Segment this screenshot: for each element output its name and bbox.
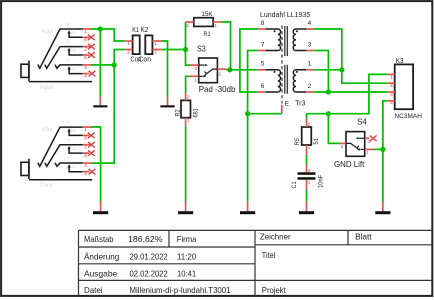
svg-text:1: 1 [308,145,311,150]
svg-text:2: 2 [127,49,130,54]
svg-text:15K: 15K [201,11,213,18]
node chassis junction [380,147,385,152]
svg-text:Lundahl LL1935: Lundahl LL1935 [260,12,310,19]
svg-text:1: 1 [366,150,369,155]
svg-text:R5: R5 [295,137,301,145]
svg-text:R: R [67,138,70,143]
svg-text:Titel: Titel [262,250,276,260]
wire Tr3.3 down to Tr3.2 net [314,51,328,93]
node secondary cold junction [326,89,331,94]
svg-text:2: 2 [154,49,157,54]
svg-text:T: T [67,156,70,161]
svg-text:Millenium-di-p-lundahl.T3001: Millenium-di-p-lundahl.T3001 [130,285,231,295]
svg-text:29.01.2022: 29.01.2022 [130,252,169,262]
svg-text:1: 1 [390,74,393,79]
svg-text:6: 6 [84,135,87,140]
ground (chassis) [375,202,390,215]
svg-text:3: 3 [390,92,393,97]
no-connect marks K5a pins 6,2,5,4 [88,133,96,175]
wire S3.1 to R2.2 [186,76,190,93]
svg-text:K2: K2 [141,27,149,34]
node secondary hot junction [339,67,344,72]
svg-text:4: 4 [390,101,393,106]
svg-text:T: T [67,58,70,63]
svg-text:SN: SN [70,30,76,35]
svg-text:K5a: K5a [42,128,53,134]
svg-text:S3: S3 [197,45,206,54]
svg-text:2: 2 [308,122,311,127]
wire R5.2 stub top [306,114,308,119]
svg-text:S4: S4 [357,118,367,127]
ground (thru sleeve) [93,202,108,215]
wire XLR-pin1 bus [307,74,388,113]
wire K5a.1 to ground [91,127,101,202]
svg-text:186,62%: 186,62% [128,234,163,244]
svg-text:4: 4 [84,172,87,177]
connector K1 [125,27,142,64]
node tip junction [112,62,117,67]
svg-text:E: E [285,101,290,108]
wire K1.2 to tip net [114,50,124,65]
svg-text:1: 1 [308,179,311,184]
svg-text:C1: C1 [292,181,298,189]
svg-text:Input: Input [40,85,54,91]
svg-text:Änderung: Änderung [84,252,120,262]
svg-text:1: 1 [154,41,157,46]
ground (C1) [299,202,314,215]
svg-text:2: 2 [84,47,87,52]
resistor R2 681 [175,93,199,126]
wire Tr3.4 to K3.2 [314,29,387,83]
svg-text:NC3MAH: NC3MAH [394,113,422,120]
svg-text:S: S [67,120,70,125]
ground (R2) [178,202,193,215]
svg-text:2: 2 [218,72,221,77]
wire Tr3.8 to Tr3.6 [240,29,258,92]
wire Tr3.1 joins [314,69,342,71]
svg-text:7: 7 [261,41,265,48]
ground (Tr3.7) [240,202,255,215]
transformer Tr3 Lundahl LL1935 [258,12,315,114]
wire S4.1 to chassis net [373,148,383,150]
svg-text:RN: RN [70,146,76,151]
wire shield branch to E pin [248,113,282,115]
wire R5.1 to C1.2 [306,155,308,165]
svg-text:Firma: Firma [177,234,197,244]
wire R1.2 / S3.3 vertical [186,22,191,65]
svg-text:6: 6 [84,37,87,42]
svg-text:K3: K3 [396,58,404,65]
node sleeve junction [98,26,103,31]
svg-text:S: S [67,22,70,27]
svg-text:Thru: Thru [40,183,52,189]
svg-text:3: 3 [84,65,87,70]
svg-text:RN: RN [70,48,76,53]
svg-text:3: 3 [84,163,87,168]
svg-text:TN: TN [70,66,76,71]
wire R1.1 down to pad output net [222,22,231,70]
svg-text:4: 4 [308,20,312,27]
no-connect marks K4a pins 6,2,5,4 [88,35,96,77]
wire K2.2 to pad input net [162,49,186,51]
svg-text:2: 2 [390,83,393,88]
wire Tr3.2 to K3.3 [314,91,387,93]
svg-text:1: 1 [84,29,87,34]
ground (input sleeve) [93,97,107,108]
svg-text:5: 5 [84,153,87,158]
svg-text:02.02.2022: 02.02.2022 [130,269,169,279]
node shield branch [245,111,250,116]
svg-text:K1: K1 [132,27,139,34]
svg-text:1: 1 [214,23,217,28]
capacitor C1 10nF [292,165,324,190]
wire tip net down to K5a.3 [91,65,114,163]
svg-text:1: 1 [308,61,312,68]
wire R2.1 to ground [185,126,187,202]
svg-text:10:41: 10:41 [177,269,197,279]
wire K4a.1 sleeve net to K1.1 [91,29,125,41]
title block table [79,230,433,296]
svg-text:2: 2 [308,168,311,173]
switch S3 Pad -30db [190,45,236,95]
switch S4 GND Lift [334,118,373,170]
svg-text:Blatt: Blatt [355,232,372,242]
svg-text:11:20: 11:20 [177,252,197,262]
wire chassis net K3.4 to ground [383,101,387,202]
wire K4a.3 tip net [91,64,114,66]
svg-text:1: 1 [194,77,197,82]
svg-text:2: 2 [308,83,312,90]
svg-text:5: 5 [84,55,87,60]
connector K5a (jack socket, Thru) [21,120,92,189]
svg-text:1: 1 [127,41,130,46]
svg-text:51: 51 [314,137,320,144]
svg-text:681: 681 [194,108,200,118]
svg-text:5: 5 [261,61,265,68]
svg-text:Maßstab: Maßstab [84,234,114,244]
svg-text:10nF: 10nF [318,174,324,187]
resistor R1 15K [186,11,222,38]
no-connect mark S4.3 [370,136,377,142]
svg-text:R1: R1 [204,31,211,38]
svg-text:2: 2 [341,144,344,149]
svg-text:Datei: Datei [84,285,103,295]
svg-text:Pad -30db: Pad -30db [199,85,236,94]
svg-text:Zeichner: Zeichner [260,232,291,242]
svg-text:1: 1 [187,117,190,122]
svg-text:R2: R2 [175,109,181,116]
svg-text:2: 2 [187,94,190,99]
svg-text:3: 3 [308,41,312,48]
svg-text:8: 8 [261,20,265,27]
wire Tr3.7 down [248,51,258,202]
ground (K2.1) [160,97,174,108]
svg-text:Projekt: Projekt [262,285,287,295]
svg-text:2: 2 [186,23,189,28]
node pad input junction [183,47,188,52]
wire S3.2 to Tr3.5 [227,69,258,71]
node bus to S4 branch [326,111,331,116]
svg-text:R: R [67,40,70,45]
svg-text:6: 6 [261,83,265,90]
wire K2.1 to ground [162,41,168,97]
connector K3 NC3MAH (XLR) [387,58,422,120]
connector K4a (jack socket, Input) [21,22,92,91]
wire bus to S4.2 [328,114,340,144]
svg-text:2: 2 [84,145,87,150]
svg-text:TN: TN [70,164,76,169]
wire C1.1 to ground [306,190,308,202]
svg-text:SN: SN [70,128,76,133]
svg-text:Con: Con [138,57,151,64]
svg-text:Ausgabe: Ausgabe [84,269,118,279]
wire sleeve to ground [99,29,101,97]
svg-text:K4a: K4a [42,30,53,36]
svg-text:4: 4 [84,74,87,79]
svg-text:1: 1 [84,127,87,132]
node pad output junction [227,67,232,72]
svg-text:3: 3 [194,66,197,71]
svg-text:GND Lift: GND Lift [334,160,365,169]
connector K2 [138,27,162,64]
svg-text:Tr3: Tr3 [295,101,305,108]
resistor R5 51 [295,119,320,155]
